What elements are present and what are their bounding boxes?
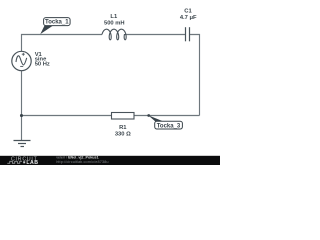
svg-text:L1: L1 [110, 14, 118, 20]
svg-text:330 Ω: 330 Ω [115, 132, 131, 138]
wire left: source to ground stem [21, 71, 23, 141]
svg-text:Tocka_3: Tocka_3 [157, 123, 181, 129]
svg-text:500 mH: 500 mH [104, 20, 125, 26]
V1 value labels [35, 52, 50, 68]
svg-text:Tocka_1: Tocka_1 [45, 20, 69, 26]
L1 value labels [104, 14, 125, 26]
svg-text:http://circuitlab.com/c/e8738u: http://circuitlab.com/c/e8738u [56, 160, 108, 164]
node label Tocka_1 [40, 18, 70, 34]
watermark bar [0, 156, 220, 165]
svg-text:C1: C1 [184, 9, 192, 15]
wire top: Tocka_1 corner to inductor [22, 35, 103, 52]
svg-text:50 Hz: 50 Hz [35, 62, 50, 68]
wire bottom left: resistor to junction [22, 115, 112, 117]
resistor R1 [112, 113, 135, 120]
ground [14, 141, 31, 147]
svg-text:veleri / ENel_vj2_Pokus1: veleri / ENel_vj2_Pokus1 [56, 156, 98, 160]
R1 value labels [115, 125, 131, 138]
wire: inductor to capacitor [126, 34, 186, 36]
logo LAB [23, 161, 25, 163]
node label Tocka_3 [147, 114, 182, 129]
capacitor C1 [186, 27, 190, 41]
svg-text:4.7 μF: 4.7 μF [180, 15, 197, 21]
svg-text:LAB: LAB [26, 160, 38, 165]
C1 value labels [180, 9, 197, 22]
inductor L1 [102, 29, 126, 40]
wire bottom right: corner to resistor [134, 115, 200, 117]
junction node [20, 114, 23, 117]
voltage source V1 [12, 51, 31, 70]
wire: capacitor to right corner and down [190, 35, 200, 116]
logo waveform [7, 161, 22, 163]
svg-text:R1: R1 [119, 125, 127, 131]
